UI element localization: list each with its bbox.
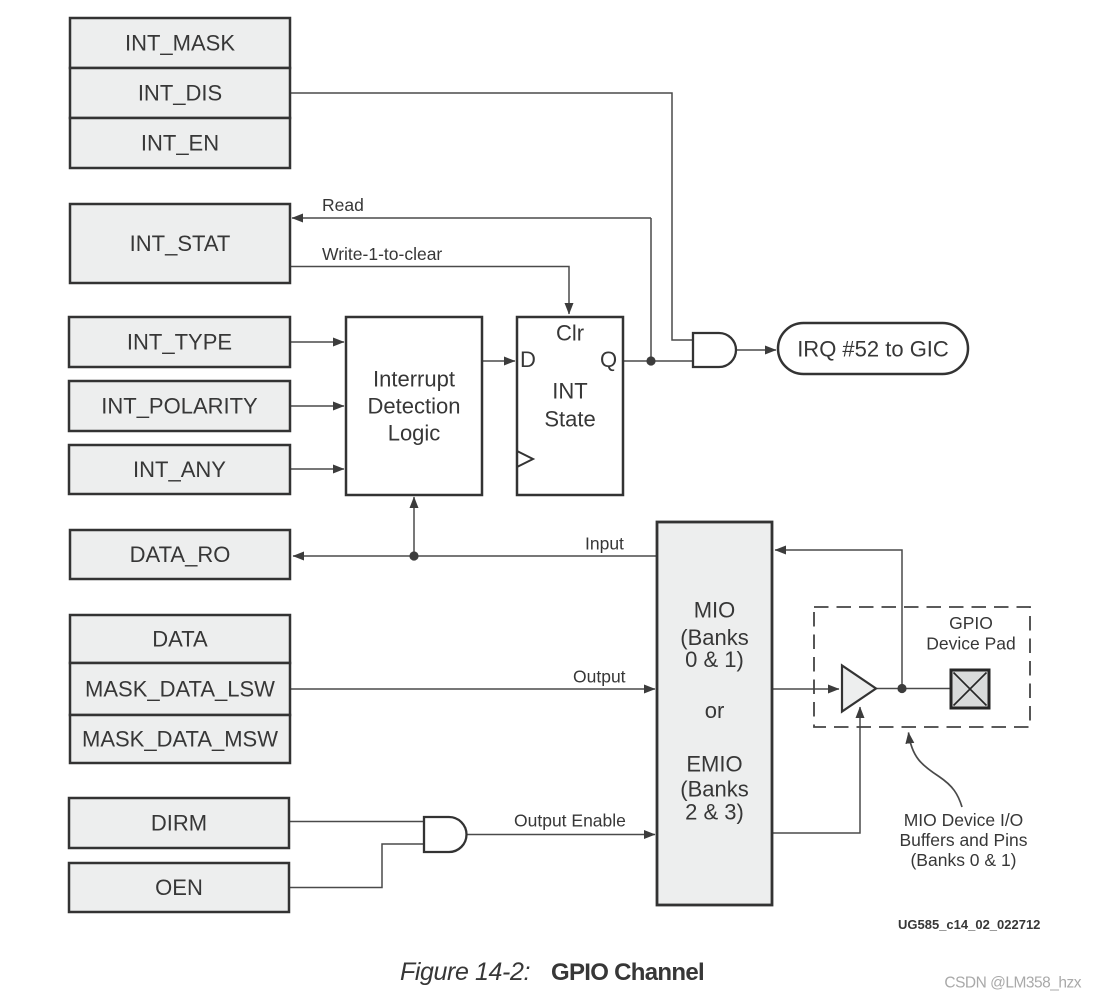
svg-text:Figure 14-2:: Figure 14-2: xyxy=(400,958,530,986)
svg-text:GPIO Channel: GPIO Channel xyxy=(551,959,704,986)
svg-text:MASK_DATA_LSW: MASK_DATA_LSW xyxy=(85,677,275,702)
svg-text:INT_DIS: INT_DIS xyxy=(138,81,222,106)
svg-text:D: D xyxy=(520,347,536,372)
svg-text:INT_EN: INT_EN xyxy=(141,131,219,156)
svg-text:Output: Output xyxy=(573,667,626,687)
svg-text:Logic: Logic xyxy=(388,421,441,446)
svg-text:INT_TYPE: INT_TYPE xyxy=(127,330,232,355)
svg-text:Read: Read xyxy=(322,195,364,215)
svg-text:DATA: DATA xyxy=(152,627,208,652)
svg-text:MASK_DATA_MSW: MASK_DATA_MSW xyxy=(82,727,278,752)
svg-text:IRQ #52 to GIC: IRQ #52 to GIC xyxy=(797,337,949,362)
svg-text:MIO Device I/O: MIO Device I/O xyxy=(904,810,1024,830)
svg-text:Buffers and Pins: Buffers and Pins xyxy=(899,830,1027,850)
svg-text:Input: Input xyxy=(585,534,624,554)
svg-text:(Banks 0 & 1): (Banks 0 & 1) xyxy=(910,850,1016,870)
svg-text:2 & 3): 2 & 3) xyxy=(685,800,744,825)
svg-text:INT: INT xyxy=(552,379,587,404)
svg-text:INT_STAT: INT_STAT xyxy=(130,231,231,256)
svg-text:CSDN @LM358_hzx: CSDN @LM358_hzx xyxy=(944,975,1081,992)
svg-text:Clr: Clr xyxy=(556,321,584,346)
svg-text:(Banks: (Banks xyxy=(680,777,748,802)
svg-text:Interrupt: Interrupt xyxy=(373,367,455,392)
svg-text:Output Enable: Output Enable xyxy=(514,811,626,831)
svg-text:or: or xyxy=(705,698,725,723)
svg-text:State: State xyxy=(544,407,595,432)
svg-text:INT_POLARITY: INT_POLARITY xyxy=(101,394,258,419)
svg-text:0 & 1): 0 & 1) xyxy=(685,647,744,672)
svg-text:Write-1-to-clear: Write-1-to-clear xyxy=(322,244,442,264)
svg-text:Q: Q xyxy=(600,347,617,372)
svg-text:MIO: MIO xyxy=(694,598,736,623)
svg-text:UG585_c14_02_022712: UG585_c14_02_022712 xyxy=(898,917,1040,932)
svg-text:DATA_RO: DATA_RO xyxy=(130,542,231,567)
svg-text:Device Pad: Device Pad xyxy=(926,634,1016,654)
svg-text:Detection: Detection xyxy=(368,394,461,419)
svg-text:INT_MASK: INT_MASK xyxy=(125,31,235,56)
svg-text:OEN: OEN xyxy=(155,875,203,900)
svg-text:DIRM: DIRM xyxy=(151,811,207,836)
svg-text:GPIO: GPIO xyxy=(949,613,993,633)
svg-text:EMIO: EMIO xyxy=(686,752,742,777)
svg-text:INT_ANY: INT_ANY xyxy=(133,457,226,482)
